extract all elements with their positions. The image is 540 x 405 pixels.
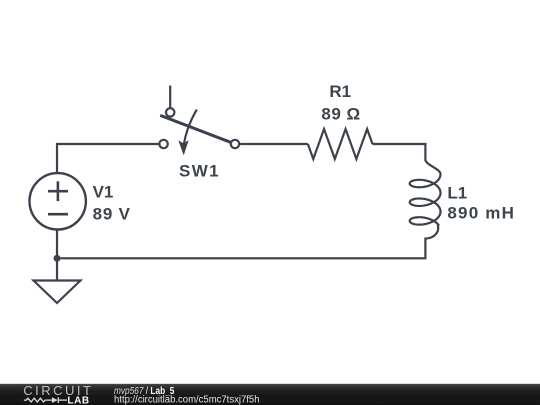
svg-text:L1: L1 xyxy=(447,183,467,202)
inductor L1 coil xyxy=(410,160,441,239)
switch SW1 terminal circles xyxy=(159,108,239,148)
voltage source V1 body circle xyxy=(30,173,86,229)
switch SW1 lever xyxy=(161,116,230,143)
V1 plus sign horizontal bar xyxy=(48,190,68,193)
wire: inductor L1 bottom to bottom rail to junction xyxy=(57,238,425,259)
svg-text:890 mH: 890 mH xyxy=(447,204,515,223)
SW1 pole terminal circle (left) xyxy=(159,140,167,148)
switch SW1 top stub wire xyxy=(169,86,171,109)
switch SW1 action arrow arc xyxy=(184,110,197,147)
wire: switch right terminal to resistor R1 xyxy=(240,143,308,145)
switch SW1 arrowhead xyxy=(178,140,188,155)
wire: V1 top to switch left terminal xyxy=(57,144,158,173)
SW1 throw terminal circle (top) xyxy=(166,108,174,116)
logo diode symbol xyxy=(52,397,58,403)
footer credit line xyxy=(114,385,260,405)
CircuitLab logo wordmark CIRCUIT xyxy=(23,383,93,398)
wire: resistor R1 to top-right corner down to inductor L1 xyxy=(373,144,426,161)
V1 minus sign bar xyxy=(48,213,68,216)
svg-text:R1: R1 xyxy=(329,82,351,101)
SW1 throw terminal circle (right) xyxy=(231,140,239,148)
svg-text:SW1: SW1 xyxy=(179,162,220,181)
resistor R1 zigzag xyxy=(308,129,373,159)
svg-text:V1: V1 xyxy=(93,182,114,201)
svg-text:LAB: LAB xyxy=(67,396,89,405)
logo resistor zigzag symbol xyxy=(24,397,67,403)
footer bar xyxy=(0,384,540,405)
logo wordmark LAB xyxy=(67,396,89,405)
junction node dot xyxy=(54,255,61,262)
svg-text:89 V: 89 V xyxy=(93,205,131,224)
ground symbol xyxy=(34,281,81,304)
voltage source V1 xyxy=(30,173,86,229)
svg-text:89 Ω: 89 Ω xyxy=(321,104,360,123)
V1 plus sign vertical bar xyxy=(57,181,60,201)
wire: V1 bottom through junction to ground xyxy=(56,230,58,281)
svg-text:http://circuitlab.com/c5mc7tsx: http://circuitlab.com/c5mc7tsxj7f5h xyxy=(114,395,260,405)
